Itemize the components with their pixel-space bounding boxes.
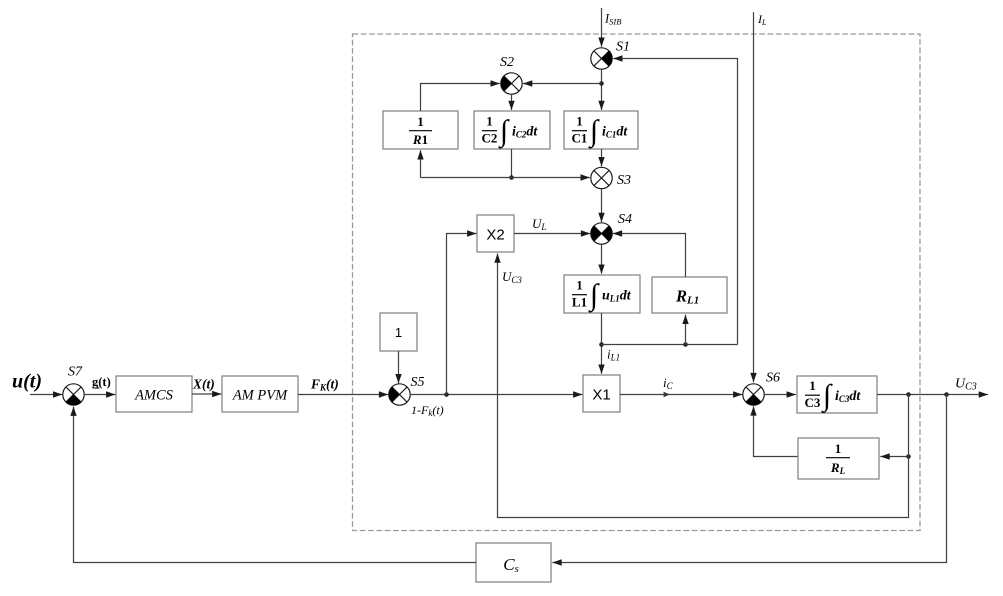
label I_L <box>757 12 767 27</box>
svg-text:FK(t): FK(t) <box>310 377 339 393</box>
wire outer feedback down and left into Cs <box>552 395 946 563</box>
wire 1/C3 output to U_C3 out <box>877 394 988 396</box>
wire branch to S2 right input <box>523 83 602 85</box>
svg-text:S6: S6 <box>766 371 780 386</box>
wire inner U_C3 feedback to X2 bottom <box>498 254 909 518</box>
label S3 <box>617 173 631 188</box>
block 1/R_L <box>798 438 879 479</box>
wire constant 1 to S5 <box>398 351 400 383</box>
label g(t) <box>92 375 111 389</box>
block X1 <box>583 375 620 412</box>
wire I_SIB input into S1 <box>601 8 603 47</box>
block X2 <box>477 215 514 252</box>
svg-text:X(t): X(t) <box>192 377 215 392</box>
wire S7 to AMCS <box>84 394 115 396</box>
svg-text:S5: S5 <box>411 375 425 390</box>
block 1/C1 integrator <box>564 111 638 150</box>
svg-text:S3: S3 <box>617 173 631 188</box>
svg-text:∫: ∫ <box>498 115 510 150</box>
svg-text:UC3: UC3 <box>955 377 977 393</box>
svg-text:iC: iC <box>663 375 674 391</box>
wire 1/R1 output to S2 left input <box>421 84 500 112</box>
svg-text:R1: R1 <box>412 132 428 147</box>
label I_SIB <box>604 12 621 27</box>
block Cs <box>476 543 551 582</box>
wire i_L1 feedback up to S1 right input <box>613 59 737 345</box>
wire tap to X2 left input <box>447 234 477 395</box>
node i_L1 bus to R_L1 <box>683 342 688 347</box>
label 1-F_k(t) <box>411 403 444 418</box>
wire S6 to block 1/C3 <box>764 394 796 396</box>
wire S3 to S4 <box>601 189 603 222</box>
svg-text:S4: S4 <box>618 212 632 227</box>
wire bus to S3 <box>421 177 590 179</box>
svg-text:∫: ∫ <box>588 115 600 150</box>
wire 1/C1 output into S3 <box>601 149 603 166</box>
node on inner feedback for R_L <box>906 454 911 459</box>
summing junction S1 <box>591 48 612 69</box>
wire S1 down to 1/C1 <box>601 69 603 110</box>
svg-text:1: 1 <box>835 441 842 456</box>
wire 1/L1 output down to X1 <box>601 313 603 374</box>
label U_C3 output <box>955 377 977 393</box>
wire i_L1 bus to right <box>602 344 738 346</box>
label S1 <box>616 40 630 55</box>
label S6 <box>766 371 780 386</box>
svg-text:∫: ∫ <box>588 279 600 314</box>
summing junction S7 <box>63 384 84 405</box>
label i_C <box>663 375 674 391</box>
wire u(t) input into S7 <box>30 394 62 396</box>
svg-text:∫: ∫ <box>821 379 833 414</box>
svg-text:C2: C2 <box>482 131 498 146</box>
wire X2 to S4 <box>514 233 590 235</box>
node i_L1 <box>599 342 604 347</box>
svg-text:S1: S1 <box>616 40 630 55</box>
svg-text:S7: S7 <box>68 365 83 380</box>
wire I_L input into S6 <box>753 12 755 382</box>
wire R_L1 output to S4 right input <box>613 234 686 278</box>
svg-text:L1: L1 <box>572 295 587 310</box>
label S5 <box>411 375 425 390</box>
wire up into R_L1 input <box>685 315 687 345</box>
svg-text:1: 1 <box>576 114 583 129</box>
summing junction S3 <box>591 167 612 188</box>
mid-line arrow on i_C wire <box>662 394 670 396</box>
wire R_L output to S6 bottom input <box>754 406 799 456</box>
svg-text:1: 1 <box>417 114 424 129</box>
block constant 1 <box>380 313 417 351</box>
svg-text:iL1: iL1 <box>607 347 620 363</box>
svg-text:X1: X1 <box>592 387 610 404</box>
svg-text:C1: C1 <box>572 131 588 146</box>
wire S5 to X1 <box>410 394 582 396</box>
summing junction S6 <box>743 384 764 405</box>
dashed subsystem boundary box <box>353 34 921 531</box>
label X(t) <box>192 377 215 392</box>
block AMCS <box>116 376 192 412</box>
wire bus up into 1/R1 input <box>420 150 422 177</box>
block AM PVM <box>222 376 298 412</box>
block R_L1 <box>652 277 727 313</box>
svg-text:1-Fk(t): 1-Fk(t) <box>411 403 444 418</box>
label S4 <box>618 212 632 227</box>
node on main line (X2 tap) <box>444 392 449 397</box>
svg-text:ISIB: ISIB <box>604 12 621 27</box>
block 1/C3 integrator <box>797 376 877 414</box>
label U_C3 inner <box>502 269 522 285</box>
svg-text:IL: IL <box>757 12 767 27</box>
summing junction S5 <box>389 384 410 405</box>
wire Cs to S7 bottom input <box>74 407 477 563</box>
svg-text:AM PVM: AM PVM <box>232 388 288 404</box>
summing junction S4 <box>591 223 612 244</box>
wire AM PVM to S5 <box>298 394 388 396</box>
block 1/R1 <box>383 111 458 149</box>
label F_K(t) <box>310 377 339 393</box>
label u(t) <box>12 371 42 393</box>
label U_L <box>532 216 546 232</box>
svg-text:g(t): g(t) <box>92 375 111 389</box>
svg-text:1: 1 <box>486 114 493 129</box>
wire AMCS to AM PVM <box>192 393 221 395</box>
wire into R_L from output node <box>880 456 908 458</box>
node below S1 <box>599 81 604 86</box>
label S2 <box>500 55 514 70</box>
svg-text:1: 1 <box>576 278 583 293</box>
label i_L1 <box>607 347 620 363</box>
node inner feedback tap <box>906 392 911 397</box>
svg-text:UL: UL <box>532 216 546 232</box>
wire 1/C2 output down to bus <box>511 149 513 178</box>
svg-text:AMCS: AMCS <box>134 388 174 404</box>
node outer feedback tap <box>944 392 949 397</box>
block 1/L1 integrator <box>564 275 640 314</box>
svg-text:UC3: UC3 <box>502 269 522 285</box>
label S7 <box>68 365 83 380</box>
wire S4 down into 1/L1 <box>601 244 603 273</box>
wire S2 down into 1/C2 <box>511 94 513 110</box>
svg-text:1: 1 <box>809 378 816 393</box>
summing junction S2 <box>501 73 522 94</box>
node on C2 output bus <box>509 175 514 180</box>
block 1/C2 integrator <box>474 111 550 150</box>
svg-text:u(t): u(t) <box>12 371 42 393</box>
wire X1 to S6 <box>620 394 742 396</box>
svg-text:C3: C3 <box>805 395 821 410</box>
svg-text:X2: X2 <box>486 227 504 244</box>
svg-text:1: 1 <box>395 325 402 340</box>
svg-text:S2: S2 <box>500 55 514 70</box>
